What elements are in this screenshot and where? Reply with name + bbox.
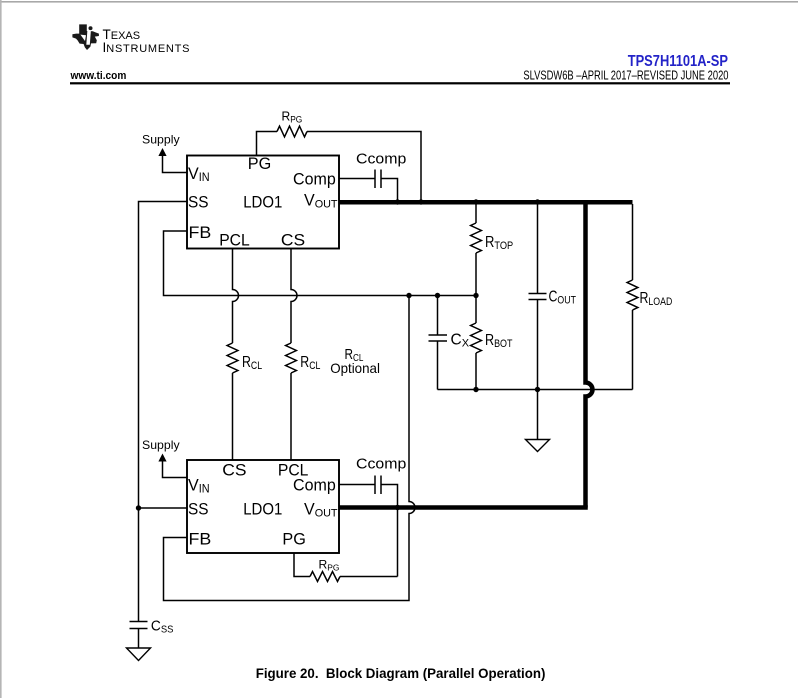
svg-text:PG: PG — [282, 529, 305, 548]
svg-text:CS: CS — [222, 460, 246, 480]
junction Ccomp2 RPG2 to VOUT2 — [395, 505, 400, 510]
LDO1 box bottom — [187, 460, 339, 553]
wire supply1 stem — [163, 156, 188, 173]
TI logo — [72, 24, 99, 50]
svg-text:CS: CS — [281, 230, 305, 250]
junction CX to FB node — [435, 293, 440, 298]
svg-text:SLVSDW6B –APRIL 2017–REVISED J: SLVSDW6B –APRIL 2017–REVISED JUNE 2020 — [523, 69, 728, 83]
resistor RPG (top) — [277, 126, 307, 137]
ground rail — [438, 389, 633, 391]
junction RBOT to ground rail — [473, 387, 478, 392]
junction RTOP to VOUT1 — [473, 199, 478, 204]
thick VOUT2 line — [339, 505, 588, 510]
ground symbol under CSS — [127, 648, 151, 661]
svg-text:Comp: Comp — [293, 169, 336, 189]
junction RTOP RBOT FB node — [473, 293, 478, 298]
svg-text:Optional: Optional — [330, 361, 380, 376]
capacitor Ccomp1 plates — [375, 170, 381, 189]
LDO1 box top — [187, 156, 339, 249]
svg-text:TPS7H1101A-SP: TPS7H1101A-SP — [628, 53, 729, 71]
wire PG1 loop to VOUT1 — [257, 132, 422, 201]
svg-text:Supply: Supply — [142, 133, 180, 147]
svg-text:Comp: Comp — [293, 475, 336, 495]
svg-text:Figure 20. Block Diagram (Par: Figure 20. Block Diagram (Parallel Opera… — [256, 666, 546, 681]
svg-text:SS: SS — [188, 500, 209, 519]
wire FB node to RBOT to ground rail — [475, 296, 477, 390]
junction RPG1 to VOUT1 — [418, 199, 423, 204]
wire CSS to ground — [138, 629, 140, 649]
wire Comp1 to Ccomp — [339, 179, 398, 201]
wire SS2 — [139, 507, 188, 509]
junction COUT to VOUT1 — [535, 199, 540, 204]
capacitor Ccomp2 plates — [375, 476, 381, 495]
capacitor CSS plates — [130, 622, 148, 629]
supply1 arrow head — [158, 148, 166, 156]
svg-text:FB: FB — [189, 222, 212, 242]
thick VOUT1 line — [339, 200, 633, 205]
capacitor CX wire — [437, 296, 439, 390]
svg-text:SS: SS — [188, 193, 209, 212]
junction SS2 on SS net — [136, 505, 141, 510]
ground stub under rail — [537, 390, 539, 440]
wire FB1 node line — [164, 231, 477, 296]
svg-text:LDO1: LDO1 — [243, 193, 282, 212]
resistor RPG (bottom) — [310, 572, 340, 582]
capacitor COUT wire — [537, 204, 539, 390]
svg-text:INSTRUMENTS: INSTRUMENTS — [103, 40, 191, 55]
svg-text:www.ti.com: www.ti.com — [70, 69, 127, 82]
svg-text:PG: PG — [248, 154, 271, 173]
resistor RBOT — [471, 323, 482, 353]
capacitor COUT plates — [529, 294, 547, 300]
svg-text:Supply: Supply — [142, 438, 180, 452]
capacitor CX plates — [429, 335, 448, 341]
thick vertical tie line with hop over ground rail — [586, 200, 593, 508]
junction COUT to ground rail — [535, 387, 540, 392]
svg-text:Ccomp: Ccomp — [356, 151, 406, 168]
svg-text:LDO1: LDO1 — [243, 500, 282, 519]
page border left — [0, 0, 2, 698]
junction FB2 riser to FB node — [406, 293, 411, 298]
supply2 arrow head — [158, 454, 166, 462]
wire PCL1 to CS2 with hop over FB node — [233, 249, 239, 461]
resistor RTOP — [471, 223, 482, 253]
header rule — [70, 82, 730, 84]
wire FB2 loop with hop over VOUT2 — [164, 296, 416, 601]
resistor RLOAD — [627, 280, 638, 310]
ground symbol under COUT — [526, 440, 550, 452]
wire CS1 to PCL2 with hop over FB node — [291, 249, 297, 461]
resistor RCL right — [286, 343, 297, 373]
wire Comp2 to Ccomp2 — [339, 485, 398, 577]
junction Ccomp1 to VOUT1 — [395, 199, 400, 204]
wire PG2 loop to VOUT2 — [294, 553, 398, 577]
wire VOUT1 to RTOP to FB node — [475, 204, 477, 296]
logo text TEXAS INSTRUMENTS — [103, 27, 191, 55]
svg-text:TEXAS: TEXAS — [103, 27, 141, 42]
page border top — [0, 1, 798, 3]
resistor RCL left — [227, 343, 238, 373]
wire VOUT1 to RLOAD to ground rail — [632, 204, 634, 390]
svg-text:FB: FB — [189, 529, 212, 549]
svg-text:PCL: PCL — [219, 231, 249, 250]
wire SS1 to CSS — [139, 202, 188, 622]
svg-text:Ccomp: Ccomp — [356, 456, 406, 473]
wire supply2 stem — [163, 461, 188, 478]
